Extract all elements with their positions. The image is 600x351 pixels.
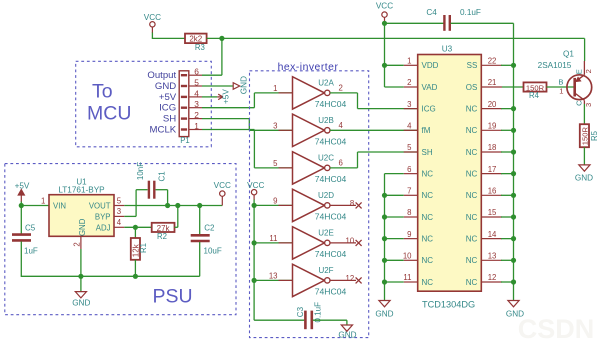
wire VCC rail to U2F input bbox=[254, 279, 292, 281]
no-connect X at U2D output bbox=[330, 202, 362, 208]
svg-text:NC: NC bbox=[466, 170, 478, 179]
svg-text:VIN: VIN bbox=[53, 201, 66, 210]
junction NC pin 17 bbox=[511, 171, 516, 176]
sheet box "To MCU" (dashed) bbox=[76, 61, 212, 147]
svg-text:U2B: U2B bbox=[318, 116, 334, 125]
svg-text:10: 10 bbox=[403, 252, 412, 261]
wire U3 right pin row 12 to rail bbox=[501, 281, 514, 283]
junction NC pin 16 bbox=[511, 193, 516, 198]
svg-text:150R: 150R bbox=[580, 127, 589, 146]
input pin stub U2A bbox=[279, 92, 293, 94]
svg-text:8: 8 bbox=[350, 199, 354, 208]
power symbol +5V (right-pointing, at P1) bbox=[217, 89, 230, 104]
wire U3 right pin row 13 to rail bbox=[501, 259, 514, 261]
wire VCC to C4 bbox=[385, 22, 444, 24]
power symbol GND (left rail) bbox=[375, 301, 393, 319]
svg-text:VAD: VAD bbox=[422, 83, 438, 92]
junction U2E input bbox=[252, 240, 257, 245]
svg-text:11: 11 bbox=[269, 234, 277, 243]
svg-text:GND: GND bbox=[506, 309, 524, 318]
power symbol +5V (PSU input) bbox=[15, 182, 30, 202]
svg-text:10: 10 bbox=[346, 237, 355, 246]
U3 pin 11 (NC) bbox=[403, 273, 433, 287]
wire P1 pin5 to GND symbol bbox=[202, 85, 233, 87]
resistor R4 150R bbox=[524, 82, 547, 100]
svg-text:U2C: U2C bbox=[318, 154, 334, 163]
wire U3 pin 8 to left rail bbox=[385, 216, 404, 218]
left NC rail of U3 bbox=[385, 174, 404, 301]
svg-text:ICG: ICG bbox=[159, 103, 176, 114]
svg-text:0.1uF: 0.1uF bbox=[314, 302, 323, 323]
U3 pin 18 (NC) bbox=[466, 143, 502, 157]
U3 pin 4 (fM) bbox=[404, 122, 431, 136]
sheet box "hex-inverter" (dashed) bbox=[250, 71, 369, 338]
svg-text:NC: NC bbox=[466, 278, 478, 287]
wire ICG: P1 pin3 to U2A input bbox=[202, 93, 293, 108]
wire VCC rail to C3 bbox=[254, 319, 304, 321]
no-connect X at U2E output bbox=[330, 240, 362, 246]
PSU ground rail bbox=[21, 275, 200, 277]
no-connect X at U2F output bbox=[330, 277, 362, 283]
svg-text:20: 20 bbox=[488, 100, 497, 109]
svg-text:74HC04: 74HC04 bbox=[315, 287, 347, 297]
wire U3 right pin row 14 to rail bbox=[501, 238, 514, 240]
power symbol GND (Q1) bbox=[575, 165, 593, 183]
svg-text:13: 13 bbox=[488, 252, 497, 261]
svg-text:LT1761-BYP: LT1761-BYP bbox=[58, 186, 105, 195]
right NC/GND rail of U3 bbox=[513, 65, 515, 300]
svg-text:13: 13 bbox=[269, 271, 278, 280]
wire P1 pin4 to +5V symbol bbox=[202, 96, 217, 98]
svg-text:NC: NC bbox=[466, 126, 478, 135]
power symbol GND (hex inverter) bbox=[338, 320, 356, 339]
wire Q1 emitter up bbox=[583, 61, 585, 75]
wire VCC to R3 bbox=[152, 33, 185, 39]
input pin stub U2D bbox=[279, 204, 293, 206]
connector P1 pin 2 (SH) bbox=[163, 110, 202, 125]
wire OS (U3 pin 21) to R4 bbox=[502, 86, 524, 88]
svg-text:8: 8 bbox=[407, 208, 411, 217]
svg-text:MCLK: MCLK bbox=[150, 124, 177, 135]
svg-text:SH: SH bbox=[163, 114, 176, 125]
svg-text:74HC04: 74HC04 bbox=[315, 249, 347, 259]
svg-text:9: 9 bbox=[273, 196, 277, 205]
inverter gate U2C 74HC04 bbox=[273, 152, 346, 184]
U3 pin 17 (NC) bbox=[466, 165, 502, 179]
junction left rail pin 7 bbox=[382, 193, 387, 198]
junction at R3 output / P1 Output branch bbox=[219, 36, 224, 41]
wire Q1 collector down to R5 bbox=[583, 100, 585, 124]
junction SS/rail bbox=[511, 63, 516, 68]
junction R2 on VOUT bbox=[175, 203, 180, 208]
svg-text:VOUT: VOUT bbox=[89, 201, 111, 210]
wire VCC down to U3 VDD/VAD bbox=[385, 23, 404, 87]
junction R1 on rail bbox=[133, 274, 138, 279]
U1 pin 5 (VOUT) bbox=[114, 196, 124, 205]
svg-text:C4: C4 bbox=[426, 8, 437, 17]
resistor R3 2k2 bbox=[185, 34, 207, 52]
svg-text:+5V: +5V bbox=[159, 92, 177, 103]
junction GND pin on rail bbox=[78, 274, 83, 279]
svg-text:4: 4 bbox=[194, 88, 199, 98]
wire VCC rail to U2D input bbox=[254, 204, 292, 206]
svg-text:1: 1 bbox=[194, 121, 199, 131]
svg-text:GND: GND bbox=[155, 81, 176, 92]
connector P1 pin 4 (+5V) bbox=[159, 88, 202, 103]
svg-text:NC: NC bbox=[422, 170, 434, 179]
junction left rail pin 11 bbox=[382, 279, 387, 284]
svg-text:1: 1 bbox=[559, 87, 563, 96]
svg-text:Output: Output bbox=[147, 70, 176, 81]
input pin stub U2B bbox=[279, 129, 293, 131]
svg-text:12: 12 bbox=[346, 274, 355, 283]
svg-text:CSDN: CSDN bbox=[518, 314, 595, 344]
wire top rail down to Q1 emitter bbox=[584, 38, 586, 61]
regulator U1 LT1761-BYP body bbox=[49, 177, 114, 236]
capacitor C5 1uF bbox=[12, 224, 38, 256]
U3 pin 5 (SH) bbox=[404, 143, 433, 157]
svg-text:U2A: U2A bbox=[318, 79, 334, 88]
wire C5 down to ground rail bbox=[20, 242, 22, 277]
power symbol GND (right-pointing, at P1) bbox=[233, 76, 248, 94]
inverter gate U2A 74HC04 bbox=[273, 77, 346, 109]
wire U2A output to U3 ICG (pin 3) bbox=[330, 93, 418, 109]
svg-text:19: 19 bbox=[488, 122, 497, 131]
svg-text:21: 21 bbox=[488, 78, 497, 87]
svg-text:74HC04: 74HC04 bbox=[315, 137, 347, 147]
svg-text:VDD: VDD bbox=[422, 61, 439, 70]
U3 pin 3 (ICG) bbox=[404, 100, 436, 114]
svg-text:NC: NC bbox=[466, 235, 478, 244]
power symbol VCC (PSU output) bbox=[214, 181, 231, 206]
inverter gate U2B 74HC04 bbox=[273, 114, 346, 146]
svg-text:0.1uF: 0.1uF bbox=[460, 8, 481, 17]
VCC rail down hex box bbox=[253, 200, 255, 321]
svg-text:VCC: VCC bbox=[214, 181, 231, 190]
svg-text:4: 4 bbox=[407, 122, 412, 131]
svg-text:1: 1 bbox=[41, 197, 45, 206]
svg-text:U3: U3 bbox=[442, 45, 453, 54]
svg-text:C2: C2 bbox=[204, 224, 215, 233]
U3 pin 20 (NC) bbox=[466, 100, 502, 114]
svg-text:2: 2 bbox=[194, 110, 199, 120]
svg-text:VCC: VCC bbox=[247, 181, 264, 190]
svg-text:6: 6 bbox=[407, 165, 411, 174]
junction NC pin 20 bbox=[511, 106, 516, 111]
svg-text:NC: NC bbox=[466, 105, 478, 114]
wire +5V down to VIN and C5 bbox=[20, 202, 22, 234]
wire U3 pin 11 to left rail bbox=[385, 281, 404, 283]
wire junction down to P1 pin 6 bbox=[202, 38, 222, 75]
svg-text:6: 6 bbox=[339, 159, 343, 168]
wire U3 pin 9 to left rail bbox=[385, 238, 404, 240]
svg-text:NC: NC bbox=[422, 191, 434, 200]
svg-text:C3: C3 bbox=[296, 306, 305, 317]
svg-text:NC: NC bbox=[466, 148, 478, 157]
capacitor C2 10uF bbox=[191, 206, 222, 277]
svg-text:3: 3 bbox=[407, 100, 411, 109]
power symbol VCC (top left) bbox=[144, 13, 161, 33]
power symbol VCC (top, U3) bbox=[376, 2, 393, 24]
junction U2D input bbox=[252, 203, 257, 208]
svg-text:TCD1304DG: TCD1304DG bbox=[422, 299, 475, 309]
svg-text:2k2: 2k2 bbox=[189, 34, 202, 43]
svg-text:GND: GND bbox=[78, 218, 87, 236]
svg-text:14: 14 bbox=[488, 230, 497, 239]
svg-text:fM: fM bbox=[422, 126, 431, 135]
svg-text:4: 4 bbox=[117, 218, 122, 227]
svg-text:6: 6 bbox=[194, 67, 199, 77]
wire U3 right pin row 20 to rail bbox=[501, 108, 514, 110]
svg-text:PSU: PSU bbox=[153, 286, 193, 308]
U1 pin 4 (ADJ) bbox=[114, 218, 124, 227]
svg-text:U2D: U2D bbox=[318, 191, 334, 200]
junction NC pin 13 bbox=[511, 258, 516, 263]
wire ADJ to R2 bbox=[124, 226, 151, 228]
svg-text:5: 5 bbox=[117, 196, 122, 205]
resistor R2 27k bbox=[152, 223, 175, 241]
svg-text:+5V: +5V bbox=[221, 89, 230, 104]
svg-text:C1: C1 bbox=[158, 171, 167, 182]
svg-text:74HC04: 74HC04 bbox=[315, 212, 347, 222]
U3 pin 15 (NC) bbox=[466, 208, 502, 222]
capacitor C4 0.1uF bbox=[426, 8, 481, 31]
svg-text:3: 3 bbox=[194, 99, 199, 109]
capacitor C3 0.1u bbox=[296, 302, 323, 329]
wire U3 right pin row 22 to rail bbox=[501, 64, 514, 66]
svg-text:C5: C5 bbox=[25, 224, 36, 233]
wire C3 to GND bbox=[313, 319, 347, 321]
wire MCLK: P1 pin1 to U2C input bbox=[202, 130, 293, 168]
svg-text:3: 3 bbox=[273, 121, 277, 130]
sheet box "PSU" (dashed) bbox=[5, 164, 236, 315]
wire U3 right pin row 19 to rail bbox=[501, 129, 514, 131]
wire U2C output to U3 SH (pin 5) bbox=[330, 152, 418, 168]
svg-text:1: 1 bbox=[273, 84, 277, 93]
wire R3 to Q1 emitter rail (net OS-OUT) bbox=[207, 37, 585, 39]
U1 pin 3 (BYP) bbox=[114, 207, 124, 216]
U3 pin 19 (NC) bbox=[466, 122, 502, 136]
svg-text:VCC: VCC bbox=[376, 2, 393, 11]
svg-text:3: 3 bbox=[117, 207, 121, 216]
wire U2B output to U3 fM (pin 4) bbox=[330, 129, 418, 131]
junction C1 on VOUT bbox=[165, 203, 170, 208]
svg-text:hex-inverter: hex-inverter bbox=[278, 62, 339, 73]
svg-text:R3: R3 bbox=[195, 43, 205, 52]
wire U1 GND pin to rail bbox=[80, 249, 82, 276]
inverter gate U2F 74HC04 bbox=[269, 264, 354, 296]
junction left rail pin 8 bbox=[382, 214, 387, 219]
wire VIN stub bbox=[21, 205, 49, 207]
svg-text:GND: GND bbox=[575, 174, 593, 183]
svg-text:To: To bbox=[92, 81, 113, 103]
wire BYP to C1 bbox=[124, 190, 147, 217]
resistor R1 12k (vertical) bbox=[131, 227, 148, 276]
U3 pin 2 (VAD) bbox=[404, 78, 438, 92]
IC U3 TCD1304DG body bbox=[418, 45, 482, 310]
wire U3 pin 7 to left rail bbox=[385, 194, 404, 196]
svg-text:GND: GND bbox=[375, 309, 393, 318]
svg-text:B: B bbox=[558, 78, 563, 87]
junction NC pin 14 bbox=[511, 236, 516, 241]
svg-text:5: 5 bbox=[273, 159, 278, 168]
U3 pin 14 (NC) bbox=[466, 230, 502, 244]
junction NC pin 18 bbox=[511, 149, 516, 154]
svg-text:2: 2 bbox=[407, 78, 411, 87]
svg-text:NC: NC bbox=[422, 256, 434, 265]
svg-text:1uF: 1uF bbox=[24, 247, 38, 256]
wire C4 to right rail bbox=[451, 23, 514, 65]
U3 pin 22 (SS) bbox=[467, 57, 502, 71]
svg-text:11: 11 bbox=[403, 273, 411, 282]
U3 pin 8 (NC) bbox=[404, 208, 434, 222]
connector P1 pin 5 (GND) bbox=[155, 77, 202, 92]
capacitor C1 10nF bbox=[136, 162, 167, 199]
wire U3 pin 10 to left rail bbox=[385, 259, 404, 261]
svg-text:7: 7 bbox=[407, 187, 411, 196]
wire R4 to Q1 base bbox=[547, 86, 574, 88]
wire VOUT to VCC bbox=[124, 205, 222, 207]
power symbol GND (right rail) bbox=[506, 301, 524, 319]
svg-text:ADJ: ADJ bbox=[96, 223, 111, 232]
svg-text:2: 2 bbox=[584, 69, 593, 73]
junction VDD bbox=[382, 63, 387, 68]
wire R2 to VOUT junction bbox=[175, 206, 178, 228]
U1 pin 2 (GND) bbox=[73, 236, 82, 249]
svg-text:10uF: 10uF bbox=[204, 246, 222, 255]
svg-text:+5V: +5V bbox=[15, 182, 30, 191]
U3 pin 9 (NC) bbox=[404, 230, 434, 244]
svg-text:GND: GND bbox=[240, 76, 249, 94]
input pin stub U2F bbox=[279, 279, 293, 281]
svg-text:22: 22 bbox=[488, 57, 497, 66]
svg-text:R1: R1 bbox=[139, 243, 148, 253]
junction NC pin 12 bbox=[511, 279, 516, 284]
power symbol VCC (hex inverter) bbox=[247, 181, 264, 200]
svg-text:3: 3 bbox=[584, 103, 593, 107]
wire U3 right pin row 18 to rail bbox=[501, 151, 514, 153]
svg-text:4: 4 bbox=[339, 121, 344, 130]
svg-text:2: 2 bbox=[339, 84, 343, 93]
svg-text:NC: NC bbox=[422, 278, 434, 287]
svg-text:BYP: BYP bbox=[95, 212, 111, 221]
svg-text:16: 16 bbox=[488, 187, 497, 196]
wire U3 right pin row 16 to rail bbox=[501, 194, 514, 196]
svg-text:2SA1015: 2SA1015 bbox=[538, 61, 572, 70]
connector P1 pin 3 (ICG) bbox=[159, 99, 202, 114]
svg-text:U2E: U2E bbox=[318, 229, 334, 238]
junction NC pin 15 bbox=[511, 214, 516, 219]
svg-text:5: 5 bbox=[194, 77, 199, 87]
svg-text:1: 1 bbox=[407, 57, 411, 66]
connector P1 pin 1 (MCLK) bbox=[150, 121, 202, 136]
svg-text:NC: NC bbox=[422, 235, 434, 244]
wire U3 right pin row 17 to rail bbox=[501, 173, 514, 175]
junction VCC top bbox=[382, 21, 387, 26]
Q1 reference labels bbox=[538, 50, 575, 70]
connector P1 body bbox=[179, 71, 189, 137]
svg-text:MCU: MCU bbox=[87, 103, 131, 125]
junction NC pin 19 bbox=[511, 128, 516, 133]
U3 pin 6 (NC) bbox=[404, 165, 434, 179]
svg-text:R5: R5 bbox=[590, 130, 599, 141]
svg-text:NC: NC bbox=[466, 256, 478, 265]
U3 pin 10 (NC) bbox=[403, 252, 433, 266]
U3 pin 1 (VDD) bbox=[404, 57, 439, 71]
svg-text:SS: SS bbox=[467, 61, 478, 70]
svg-text:VCC: VCC bbox=[144, 13, 161, 22]
U3 pin 16 (NC) bbox=[466, 187, 502, 201]
svg-text:U2F: U2F bbox=[318, 266, 333, 275]
wire U3 right pin row 15 to rail bbox=[501, 216, 514, 218]
wire SH: P1 pin2 to U2B input bbox=[202, 119, 293, 131]
svg-text:10nF: 10nF bbox=[136, 162, 145, 180]
svg-text:NC: NC bbox=[466, 213, 478, 222]
U3 pin 21 (OS) bbox=[466, 78, 502, 92]
svg-text:9: 9 bbox=[407, 230, 411, 239]
junction R1 on ADJ bbox=[133, 225, 138, 230]
svg-text:P1: P1 bbox=[180, 136, 190, 145]
svg-text:R2: R2 bbox=[157, 232, 167, 241]
svg-text:17: 17 bbox=[488, 165, 497, 174]
svg-text:GND: GND bbox=[72, 298, 90, 307]
junction +5V / VIN bbox=[19, 203, 24, 208]
inverter gate U2E 74HC04 bbox=[269, 227, 354, 259]
svg-text:C: C bbox=[575, 100, 584, 106]
svg-text:18: 18 bbox=[488, 143, 497, 152]
wire R5 to GND bbox=[583, 147, 585, 165]
input pin stub U2E bbox=[279, 242, 293, 244]
svg-text:E: E bbox=[575, 69, 584, 74]
transistor Q1 2SA1015 (PNP) bbox=[567, 75, 592, 100]
svg-text:SH: SH bbox=[422, 148, 433, 157]
svg-text:R4: R4 bbox=[529, 91, 540, 100]
wire C1 to VOUT junction bbox=[156, 190, 168, 206]
power symbol GND (PSU) bbox=[72, 276, 90, 307]
resistor R5 150R (vertical) bbox=[580, 124, 599, 147]
svg-text:NC: NC bbox=[422, 213, 434, 222]
svg-text:OS: OS bbox=[466, 83, 478, 92]
inverter gate U2D 74HC04 bbox=[273, 189, 354, 221]
svg-text:15: 15 bbox=[488, 208, 497, 217]
connector P1 pin 6 (Output) bbox=[147, 67, 202, 82]
svg-text:ICG: ICG bbox=[422, 105, 436, 114]
svg-text:2: 2 bbox=[73, 242, 82, 246]
svg-text:12: 12 bbox=[488, 273, 497, 282]
junction C2 on VOUT bbox=[197, 203, 202, 208]
wire VCC rail to U2E input bbox=[254, 242, 292, 244]
svg-text:Q1: Q1 bbox=[563, 50, 574, 59]
junction U2F input bbox=[252, 278, 257, 283]
svg-text:74HC04: 74HC04 bbox=[315, 174, 347, 184]
input pin stub U2C bbox=[279, 167, 293, 169]
U3 pin 12 (NC) bbox=[466, 273, 502, 287]
svg-text:74HC04: 74HC04 bbox=[315, 99, 347, 109]
U3 pin 7 (NC) bbox=[404, 187, 434, 201]
svg-text:GND: GND bbox=[338, 331, 356, 340]
U3 pin 13 (NC) bbox=[466, 252, 502, 266]
junction left rail pin 10 bbox=[382, 258, 387, 263]
label To MCU bbox=[87, 81, 131, 125]
svg-text:NC: NC bbox=[466, 191, 478, 200]
junction left rail pin 9 bbox=[382, 236, 387, 241]
svg-text:5: 5 bbox=[407, 143, 412, 152]
